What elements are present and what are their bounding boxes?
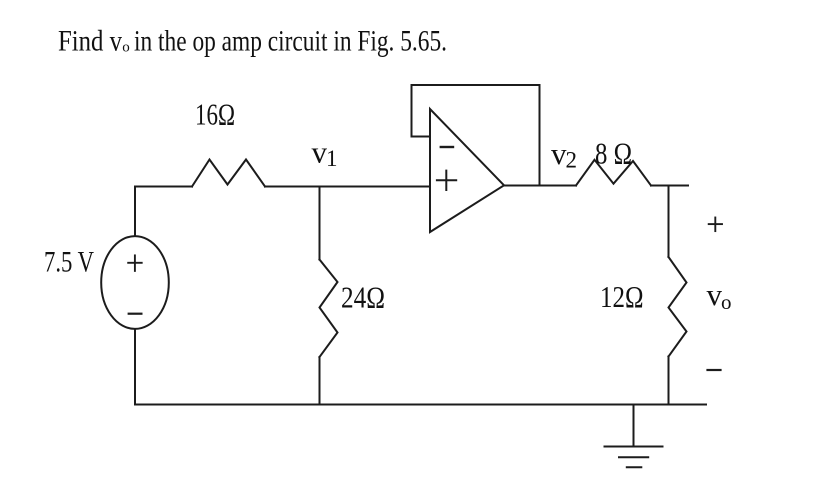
svg-text:24Ω: 24Ω (341, 280, 385, 315)
svg-text:8 Ω: 8 Ω (595, 136, 632, 171)
svg-text:1: 1 (326, 146, 338, 171)
resistor R 8ohm zigzag (576, 160, 651, 186)
source plus sign (128, 255, 142, 271)
svg-text:16Ω: 16Ω (195, 97, 235, 132)
svg-text:o: o (122, 40, 130, 56)
wire: feedback loop from output to inverting input (412, 85, 540, 186)
output polarity plus sign (709, 218, 722, 232)
wire: node v1 horizontal to op-amp non-inverting input (265, 186, 430, 188)
resistor R 12ohm zigzag (669, 257, 687, 357)
op-amp non-inverting input plus sign (437, 171, 456, 190)
svg-text:Find v: Find v (58, 25, 122, 57)
ground symbol stem (633, 405, 635, 446)
svg-text:7.5 V: 7.5 V (44, 245, 94, 278)
wire: top-left horizontal from source to 16-ohm resistor (135, 187, 192, 237)
wire: 12-ohm top lead (668, 186, 670, 258)
ground symbol bar 2 (619, 456, 648, 458)
source minus sign (129, 313, 142, 315)
op-amp inverting input minus sign (441, 146, 453, 148)
wire: 24-ohm top lead from node v1 (319, 187, 321, 260)
wire: op-amp output to node v2 (504, 185, 576, 187)
wire: source bottom lead (134, 329, 136, 405)
op-amp U1 triangle (430, 109, 504, 232)
ground symbol bar 1 (605, 446, 663, 448)
resistor R 24ohm zigzag (320, 260, 338, 358)
wire: 24-ohm bottom lead (319, 357, 321, 405)
svg-text:2: 2 (566, 147, 578, 172)
svg-text:in the op amp circuit in Fig.: in the op amp circuit in Fig. 5.65. (134, 25, 447, 57)
svg-text:12Ω: 12Ω (600, 279, 644, 314)
resistor R 16ohm zigzag (192, 160, 265, 187)
wire: 12-ohm bottom lead (668, 357, 670, 405)
wire: bottom ground rail (135, 404, 706, 406)
ground symbol bar 3 (627, 466, 642, 468)
output polarity minus sign (708, 369, 721, 371)
voltage source V 7.5V ellipse (101, 236, 169, 329)
wire: 8-ohm to output node stub (651, 185, 688, 187)
svg-text:o: o (721, 290, 732, 314)
